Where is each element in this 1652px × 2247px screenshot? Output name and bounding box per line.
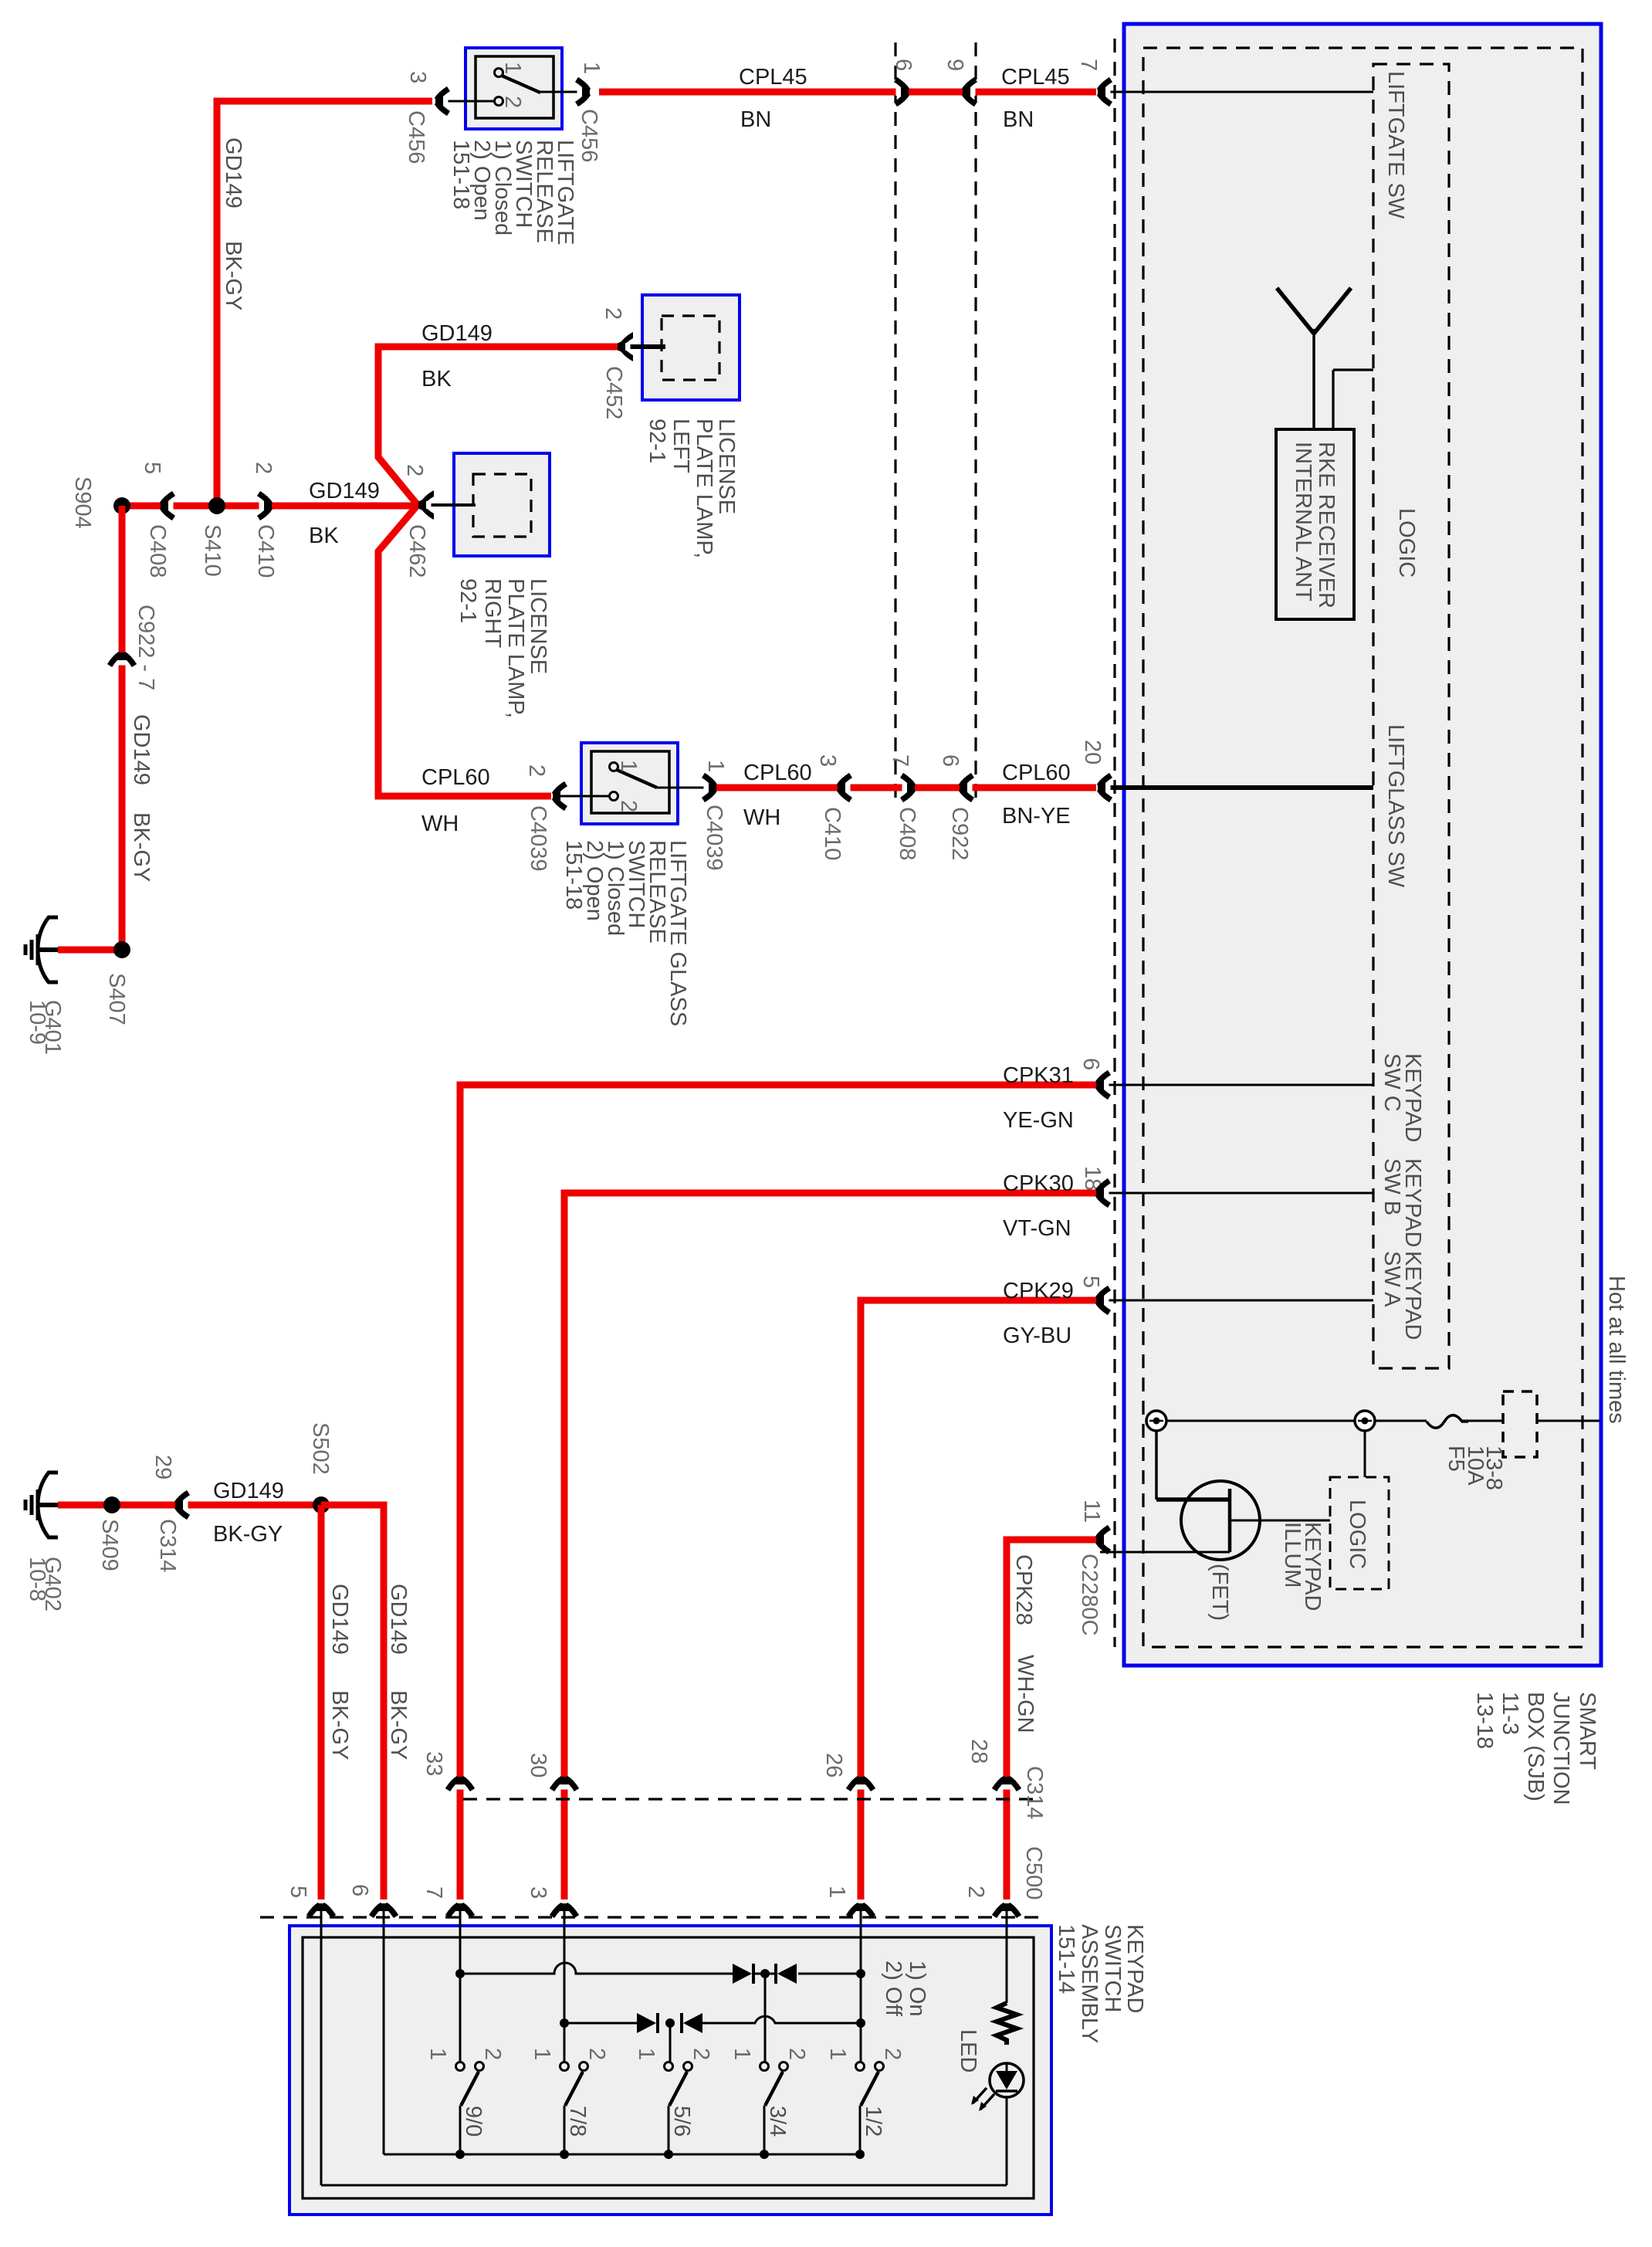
connector arrow SJB pin 5 [1096,1288,1109,1313]
connector arrow C314 pin 29 [175,1493,188,1517]
svg-text:KEYPAD: KEYPAD [1122,1924,1147,2014]
lamp right pin line [418,503,476,507]
svg-text:3: 3 [815,754,840,767]
svg-text:BK: BK [309,524,339,548]
svg-text:11-3: 11-3 [1498,1692,1522,1735]
switch blade [617,770,657,788]
wire GD149 BK license lamps to CPL60 switch [378,347,618,796]
svg-text:10-8: 10-8 [25,1557,49,1601]
svg-text:13-18: 13-18 [1472,1692,1497,1749]
svg-text:CPL60: CPL60 [743,761,812,785]
svg-text:9: 9 [943,59,967,71]
diode D2 [777,1964,797,1984]
connector arrow C410 pin 2 [259,493,272,518]
keypad lead pin6 [383,1907,385,2154]
svg-text:GD149: GD149 [221,137,245,208]
junction row2 left [560,2018,569,2028]
svg-text:CPL60: CPL60 [421,765,490,790]
svg-text:C410: C410 [820,807,845,860]
connector arrow C456 pin 1 [577,80,590,104]
wire terminal to illum logic [1364,1431,1366,1477]
svg-text:GY-BU: GY-BU [1003,1323,1071,1348]
svg-text:GD149: GD149 [327,1584,352,1655]
svg-text:LIFTGLASS SW: LIFTGLASS SW [1383,724,1408,888]
svg-text:LIFTGATE SW: LIFTGATE SW [1383,71,1408,219]
svg-text:(FET): (FET) [1207,1564,1232,1621]
wire GD149 BK-GY ground row [58,1502,384,1509]
svg-text:1) On: 1) On [905,1961,929,2017]
splice S904 [113,497,130,514]
svg-text:S904: S904 [70,476,95,529]
svg-text:2: 2 [601,307,625,320]
ground G401 [25,917,58,982]
SJB connector face dashed line [1113,39,1115,1647]
wire pin11 to FET source [1100,1551,1230,1554]
svg-text:YE-GN: YE-GN [1003,1108,1074,1133]
svg-text:LOGIC: LOGIC [1345,1500,1369,1569]
svg-text:10-9: 10-9 [25,1000,49,1045]
svg-text:LOGIC: LOGIC [1394,508,1419,578]
connector arrow C408 pin 5 [161,493,174,518]
wire diode junction to sw 5/6 [669,2023,672,2063]
splice S502 [313,1496,330,1513]
switch blade [502,76,540,93]
connector arrow C922 pin 9 [963,80,976,104]
svg-text:7: 7 [888,754,912,767]
svg-text:CPL60: CPL60 [1002,761,1071,785]
smart junction box (SJB) outline [1124,24,1601,1666]
svg-text:1: 1 [616,760,641,772]
junction row1 left [455,1969,465,1978]
svg-text:C4039: C4039 [702,805,726,870]
svg-text:S409: S409 [97,1519,122,1571]
wire pin20 to logic (liftglass) [1100,785,1373,790]
svg-text:S407: S407 [104,973,129,1025]
svg-text:151-18: 151-18 [449,140,473,209]
keypad switch 5/6 [665,2062,673,2071]
keypad inner border [303,1937,1034,2198]
wire CPL45 BN to SJB pin 7 [599,89,1096,96]
wire between terminals [1166,1420,1355,1422]
keypad row2 wire with hop [564,2016,861,2023]
svg-text:2: 2 [480,2048,505,2060]
splice S407 [113,941,130,958]
connector arrow C462 pin 2 [418,490,434,520]
svg-text:BN: BN [740,107,771,132]
connector arrow C500 pin 5 [309,1903,333,1917]
wire terminal to fuse [1375,1420,1427,1422]
svg-text:Hot at all times: Hot at all times [1604,1276,1629,1424]
junction row2 diodes [665,2018,675,2028]
connector C500 dashed line [260,1916,1047,1918]
wire holder to hot feed [1537,1420,1600,1422]
svg-text:VT-GN: VT-GN [1003,1216,1071,1241]
svg-text:20: 20 [1080,740,1105,764]
svg-text:C456: C456 [577,109,601,162]
svg-text:3: 3 [526,1886,550,1899]
connector arrow C408 pin 7 [902,775,915,800]
svg-text:BK-GY: BK-GY [129,812,154,882]
svg-text:C452: C452 [601,366,626,419]
svg-text:7/8: 7/8 [565,2106,590,2137]
svg-text:S502: S502 [308,1422,333,1475]
fuse holder dashed box [1503,1391,1537,1457]
svg-text:3/4: 3/4 [765,2106,790,2137]
svg-text:LED: LED [956,2029,980,2072]
svg-text:SW B: SW B [1379,1158,1404,1215]
svg-text:7: 7 [1076,59,1101,71]
svg-text:2) Off: 2) Off [881,1961,906,2017]
svg-text:WH: WH [421,812,459,836]
diode D3 [637,2013,656,2033]
svg-text:1: 1 [825,2048,850,2060]
svg-text:2: 2 [963,1886,988,1898]
svg-text:GD149: GD149 [129,714,154,785]
connector C314 dashed line [463,1798,1038,1800]
SJB inner dashed boundary [1143,48,1583,1647]
wire terminal to FET drain [1155,1431,1158,1500]
liftgate release switch box [465,48,562,129]
svg-text:5: 5 [140,462,164,474]
connector arrow C922 pin 7 inline [110,652,134,666]
svg-text:WH-GN: WH-GN [1013,1655,1038,1733]
svg-text:3: 3 [405,71,430,83]
keypad switch common bus [384,2154,861,2156]
svg-text:28: 28 [966,1739,991,1764]
connector arrow C500 pin 3 [552,1903,577,1917]
svg-text:SW C: SW C [1379,1053,1404,1112]
svg-text:BK-GY: BK-GY [327,1690,352,1760]
terminal (left) [1146,1411,1166,1431]
svg-text:C922: C922 [947,807,972,860]
svg-text:WH: WH [743,805,780,830]
connector C408 dashed line [894,42,896,803]
svg-text:6: 6 [1078,1058,1103,1070]
svg-text:RIGHT: RIGHT [480,578,505,649]
splice S409 [103,1496,120,1513]
diode D4 [683,2013,702,2033]
connector arrow C314 pin 26 [848,1777,873,1790]
svg-text:2: 2 [584,2048,609,2060]
svg-text:5: 5 [286,1886,310,1898]
wire stub [214,98,221,101]
svg-text:6: 6 [891,59,916,71]
keypad switch 9/0 [456,2062,465,2071]
svg-text:ILLUM: ILLUM [1280,1522,1305,1588]
wire RKE to logic [1332,370,1334,429]
fuse F5 element [1427,1415,1468,1429]
keypad switch 7/8 [560,2062,569,2071]
wire GD149 BK-GY keypad pin 5 [318,1505,325,1900]
resistor (LED series) [997,2003,1017,2045]
license plate lamp right box [454,453,550,556]
keypad lead pin3 to sw 7/8 [564,1907,566,2063]
svg-text:BK-GY: BK-GY [213,1522,283,1547]
connector arrow SJB pin 11 [1096,1527,1109,1552]
svg-text:2: 2 [616,800,641,812]
wire GD149 BK-GY keypad pin 6 [321,1505,384,1900]
svg-text:S410: S410 [200,524,225,577]
svg-text:CPK31: CPK31 [1003,1063,1074,1088]
liftgate glass release switch box [581,743,678,824]
svg-text:BK: BK [421,367,452,391]
svg-text:CPK30: CPK30 [1003,1171,1074,1196]
connector arrow C500 pin 6 [371,1903,396,1917]
splice S410 [208,497,225,514]
antenna symbol [1277,288,1351,429]
wire GD149 BK-GY to G401 [58,506,122,950]
svg-text:C314: C314 [1022,1766,1047,1819]
svg-text:CPL45: CPL45 [1001,65,1070,90]
connector arrow C410 pin 3 [838,775,851,800]
svg-text:C314: C314 [155,1519,180,1572]
svg-text:1: 1 [824,1886,849,1898]
svg-text:JUNCTION: JUNCTION [1549,1692,1573,1805]
ground G402 [25,1473,58,1537]
license plate lamp left box [642,295,740,400]
svg-text:1: 1 [703,760,728,772]
svg-text:33: 33 [421,1751,446,1776]
connector C922 dashed line [974,42,977,803]
connector arrow C408 pin 6 [895,80,909,104]
wire CPK30 VT-GN keypad sw B [564,1193,1096,1900]
pin 2 line [553,795,609,798]
LED D5 [990,2063,1024,2097]
svg-text:GD149: GD149 [309,479,380,503]
svg-text:6: 6 [938,754,963,767]
connector arrow C4039 pin 1 [703,775,716,800]
keypad lead pin2 to resistor [1006,1907,1008,2003]
svg-text:CPL45: CPL45 [739,65,807,90]
wire pin5 to logic [1098,1300,1373,1302]
keypad lead pin7 to sw 9/0 [459,1907,462,2063]
svg-text:29: 29 [151,1455,175,1479]
svg-text:C922 - 7: C922 - 7 [134,605,158,690]
junction row2 right [856,2018,865,2028]
wire pin18 to logic [1098,1192,1373,1195]
svg-text:GD149: GD149 [421,321,493,346]
FET gate wire to logic [1230,1520,1330,1522]
svg-text:SWITCH: SWITCH [1100,1924,1125,2012]
connector arrow SJB pin 18 [1096,1181,1109,1205]
svg-text:151-18: 151-18 [561,840,586,910]
svg-text:2: 2 [524,764,549,777]
wire GD149 BK-GY from liftgate release switch to S410 [217,101,432,506]
svg-text:2: 2 [880,2048,905,2060]
svg-text:92-1: 92-1 [455,578,480,623]
svg-text:INTERNAL ANT: INTERNAL ANT [1291,442,1315,602]
svg-text:SW A: SW A [1379,1251,1404,1307]
svg-text:C408: C408 [145,524,170,578]
svg-text:13-8: 13-8 [1481,1445,1506,1490]
svg-text:LICENSE: LICENSE [526,578,550,674]
keypad switch 1/2 [856,2062,865,2071]
wire CPK28 WH-GN keypad illum [1007,1540,1096,1900]
junction row1 diodes [760,1969,770,1978]
svg-text:LEFT: LEFT [669,419,693,473]
transistor Q1 (FET) [1181,1481,1260,1560]
svg-text:RKE RECEIVER: RKE RECEIVER [1314,442,1339,608]
keypad switch 3/4 [760,2062,769,2071]
svg-text:C462: C462 [405,524,429,578]
svg-text:30: 30 [526,1753,550,1778]
wire pin7 to logic [1100,91,1373,93]
svg-text:C4039: C4039 [526,805,550,871]
svg-text:1: 1 [579,62,604,74]
svg-text:1: 1 [730,2048,754,2060]
liftgate glass release switch contacts [610,763,618,771]
connector arrow C456 pin 3 [435,89,449,114]
svg-text:2: 2 [784,2048,809,2060]
connector arrow C500 pin 7 [448,1903,472,1917]
RKE receiver internal ant box [1276,429,1354,619]
svg-text:2: 2 [500,96,525,108]
svg-text:1: 1 [530,2048,554,2060]
keypad row1 wire with hop [460,1963,733,1974]
svg-text:C410: C410 [253,524,278,578]
svg-text:2: 2 [689,2048,713,2060]
wire CPK29 GY-BU keypad sw A [861,1300,1096,1900]
svg-text:BN-YE: BN-YE [1002,804,1071,829]
connector arrow SJB pin 7 [1098,80,1111,104]
svg-text:BK-GY: BK-GY [221,241,245,310]
keypad lead pin5 [320,1907,323,2185]
wire diode junction to sw 3/4 [764,1974,767,2063]
svg-text:C2280C: C2280C [1077,1554,1102,1635]
svg-text:6: 6 [347,1884,372,1896]
svg-text:SMART: SMART [1575,1692,1600,1770]
svg-text:92-1: 92-1 [645,419,669,463]
connector arrow C500 pin 1 [848,1903,873,1917]
keypad lead pin1 to sw 1/2 [860,1907,862,2063]
SJB logic dashed box [1373,64,1449,1368]
connector arrow SJB pin 20 [1098,775,1111,800]
svg-text:C408: C408 [895,807,919,860]
svg-text:1: 1 [425,2048,450,2060]
svg-text:C500: C500 [1021,1846,1046,1900]
svg-text:ASSEMBLY: ASSEMBLY [1077,1924,1102,2043]
connector arrow C452 pin 2 [618,332,633,361]
svg-text:2: 2 [251,462,276,474]
wire fuse to holder [1462,1420,1503,1422]
wire pin6 to logic [1098,1084,1373,1086]
connector arrow C4039 pin 2 [553,784,566,808]
svg-text:PLATE LAMP,: PLATE LAMP, [692,419,716,558]
connector arrow C314 pin 28 [994,1777,1019,1790]
wire CPL60 WH / BN-YE to SJB pin 20 [716,785,1096,791]
svg-text:11: 11 [1079,1500,1104,1523]
svg-text:GD149: GD149 [213,1479,284,1503]
pin 3 line [435,100,494,103]
svg-text:PLATE LAMP,: PLATE LAMP, [503,578,528,718]
connector arrow C314 pin 33 [448,1777,472,1790]
svg-text:BN: BN [1003,107,1034,132]
connector arrow SJB pin 6 [1096,1073,1109,1097]
connector arrow C922 pin 6 [960,775,973,800]
svg-text:CPK29: CPK29 [1003,1279,1074,1303]
wire GD149 BK splice row [122,503,417,510]
connector arrow C314 pin 30 [552,1777,577,1790]
pin 1 line [540,91,590,93]
keypad LED return wire [321,2184,1007,2187]
svg-text:1: 1 [500,62,525,74]
svg-text:26: 26 [821,1753,846,1778]
lamp left pin line [618,344,665,349]
connector arrow C500 pin 2 [994,1903,1019,1917]
svg-text:CPK28: CPK28 [1011,1554,1036,1625]
svg-text:BOX (SJB): BOX (SJB) [1523,1692,1548,1801]
pin 1 line [657,787,716,789]
svg-text:7: 7 [421,1886,446,1899]
svg-text:2: 2 [402,464,427,476]
svg-text:GD149: GD149 [386,1584,411,1655]
keypad switch assembly box [289,1926,1051,2215]
liftgate release switch contacts [495,69,503,77]
svg-text:C456: C456 [404,110,428,164]
svg-text:1: 1 [634,2048,658,2060]
terminal (right) [1355,1411,1375,1431]
svg-text:BK-GY: BK-GY [386,1690,411,1760]
svg-text:151-14: 151-14 [1054,1924,1078,1994]
junction row1 right [856,1969,865,1978]
svg-text:9/0: 9/0 [461,2106,486,2137]
diode D1 [733,1964,752,1984]
keypad illum logic dashed box [1330,1477,1389,1589]
svg-text:5: 5 [1078,1276,1103,1288]
wire CPK31 YE-GN keypad sw C [460,1085,1096,1900]
svg-text:5/6: 5/6 [669,2106,694,2137]
svg-text:1/2: 1/2 [861,2106,885,2137]
svg-text:LICENSE: LICENSE [714,419,739,514]
FET drain wire [1156,1497,1230,1502]
